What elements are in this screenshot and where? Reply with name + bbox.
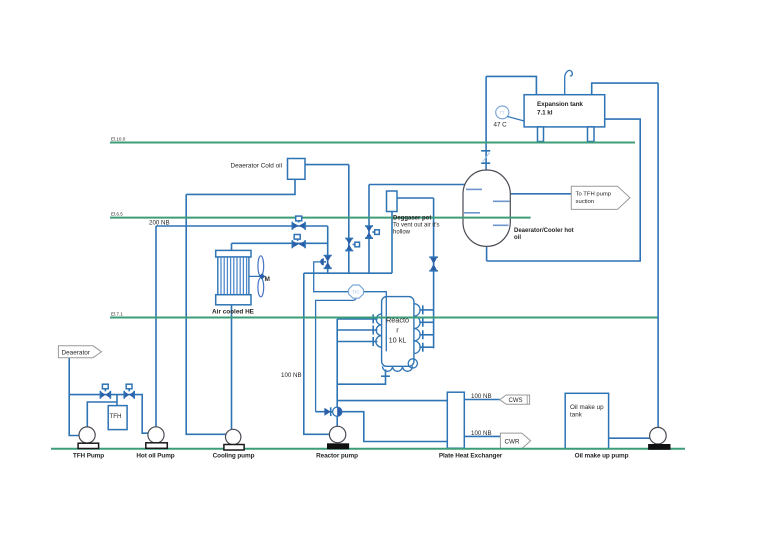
wire reactor left nozzle 1: [337, 318, 377, 320]
svg-text:Deaerator: Deaerator: [62, 349, 91, 356]
leader line TT to tank: [508, 117, 525, 122]
pedestal reactor pump: [328, 444, 349, 449]
wire valve D drop: [348, 165, 350, 274]
wire TFH box feed: [116, 395, 118, 406]
arrow deaerator: [58, 346, 101, 358]
wire expansion tank outlet to vessel bottom: [487, 119, 641, 261]
wire TFH pump discharge: [87, 402, 117, 427]
air cooled HE body: [218, 257, 249, 295]
valve B on HE feed header: [292, 235, 305, 249]
arrow CWR: [500, 433, 530, 449]
wire reactor bottom outlet: [337, 370, 385, 385]
svg-text:100 NB: 100 NB: [471, 430, 492, 437]
wire cooling pump riser: [231, 305, 233, 430]
vessel internal baffle 4: [493, 224, 509, 226]
TFH box: [108, 406, 127, 430]
wire reactor pump discharge to plate HE: [337, 400, 447, 402]
wire vessel outlet to TFH suction arrow: [510, 193, 571, 195]
wire vessel vent riser: [485, 76, 487, 170]
svg-text:7.1 kl: 7.1 kl: [537, 110, 553, 117]
fan blade top: [258, 256, 264, 276]
flange ticks right nozzles: [422, 305, 424, 351]
svg-text:Oil make up: Oil make up: [570, 404, 604, 411]
deggaser pot: [387, 191, 398, 212]
svg-text:Air cooled HE: Air cooled HE: [212, 309, 255, 316]
air cooled HE bottom header: [216, 295, 251, 305]
svg-text:El.10.0: El.10.0: [111, 137, 126, 142]
arrow to TFH pump suction: [571, 186, 630, 209]
svg-text:10 kL: 10 kL: [389, 336, 407, 345]
wire air cooled HE feed header: [232, 242, 328, 244]
reactor jacket scallops right: [414, 304, 420, 354]
svg-text:CWS: CWS: [509, 398, 523, 404]
wire pump suction line y411.7: [316, 412, 448, 442]
vessel internal baffle 2: [493, 200, 510, 202]
expansion tank: [524, 95, 605, 127]
air cooled HE tube hatching: [221, 257, 247, 295]
svg-text:TFH Pump: TFH Pump: [73, 453, 104, 460]
vessel internal baffle 3: [464, 212, 480, 214]
spectacle blind flange ticks on vent riser: [481, 151, 490, 163]
wire vessel inlet from valve header: [369, 184, 466, 186]
pump oil make up circle: [650, 427, 667, 444]
svg-text:Oil make up pump: Oil make up pump: [575, 453, 629, 460]
wire vessel bottom outlet: [486, 246, 488, 261]
wire cooling pump suction drop: [186, 194, 225, 434]
wire TIC branch from valve C actuator: [314, 262, 349, 292]
svg-text:El.7.1: El.7.1: [111, 312, 123, 317]
vessel internal baffle 1: [466, 188, 482, 190]
wire deaerator arrow drop to TFH pump: [69, 358, 79, 436]
svg-text:100 NB: 100 NB: [471, 393, 492, 400]
pedestal TFH pump: [78, 443, 99, 448]
wire deggaser pot drop: [391, 212, 393, 274]
svg-text:TT: TT: [499, 111, 505, 116]
wire reactor right nozzle 3: [419, 334, 433, 336]
valve A actuator square (over elevation line): [298, 221, 300, 223]
elevation line El.6.5: [110, 217, 531, 219]
svg-text:El.6.5: El.6.5: [111, 212, 123, 217]
valve D vertical with actuator square: [345, 238, 359, 250]
wire deggaser pot outlet: [397, 197, 434, 199]
svg-text:Reacto: Reacto: [386, 316, 409, 325]
pump cooling circle: [226, 429, 241, 444]
reactor jacket scallops bottom: [383, 366, 413, 371]
elevation line El.7.1: [110, 317, 658, 319]
instrument TIC octagon: [349, 285, 364, 298]
wire air cooled HE feed drop: [231, 243, 233, 250]
svg-text:tank: tank: [570, 412, 583, 419]
wire suction header y273: [304, 272, 392, 274]
wire TIC capillary into reactor: [363, 292, 386, 352]
deaerator/cooler hot oil vessel: [463, 170, 510, 246]
pump TFH circle: [79, 427, 95, 443]
svg-text:Plate Heat Exchanger: Plate Heat Exchanger: [439, 453, 503, 460]
svg-text:Cooling pump: Cooling pump: [213, 453, 255, 460]
svg-text:CWR: CWR: [505, 439, 520, 446]
wire reactor right nozzle 2: [419, 321, 433, 323]
wire reactor left nozzle 3: [337, 341, 377, 343]
wire valve C drop: [327, 226, 329, 273]
svg-text:Deaerator Cold oil: Deaerator Cold oil: [231, 163, 283, 170]
reactor corner scallop circle: [408, 359, 417, 368]
flange tick reactor bottom: [381, 375, 390, 377]
valve F on reactor right manifold: [429, 257, 438, 271]
wire valve E drop: [368, 185, 370, 274]
wire expansion tank top-left header: [486, 76, 536, 94]
oil make up tank: [565, 393, 608, 449]
wire plate HE to CWR: [464, 435, 500, 437]
ball valve at reactor pump riser: [333, 407, 342, 416]
svg-text:Hot oil Pump: Hot oil Pump: [136, 453, 174, 460]
svg-text:To vent out air it's: To vent out air it's: [393, 223, 440, 229]
wire plate HE to CWS: [464, 399, 499, 401]
valve C vertical with diaphragm: [320, 256, 332, 269]
fan blade bottom: [258, 278, 264, 297]
arrow CWS: [500, 395, 530, 404]
wire 200 NB header: [156, 225, 328, 227]
svg-text:oil: oil: [514, 235, 521, 241]
wire expansion tank overflow to right riser: [592, 83, 658, 95]
wire reactor right nozzle 4: [419, 346, 433, 348]
wire deaerator cold oil box right line: [305, 164, 349, 166]
svg-text:To TFH pump: To TFH pump: [576, 192, 612, 198]
svg-text:TFH: TFH: [110, 413, 122, 420]
valve A on 200 NB header: [292, 221, 305, 230]
pedestal oil make up pump: [649, 445, 670, 450]
valve V1 TFH header: [100, 384, 110, 399]
svg-text:Deggaser pot: Deggaser pot: [393, 216, 431, 222]
wire oil tank to oil pump: [609, 437, 650, 439]
instrument TT 47C circle: [496, 106, 509, 119]
air cooled HE top header: [216, 250, 251, 257]
expansion tank leg right: [588, 127, 595, 142]
flange ticks left nozzles: [372, 314, 374, 346]
pump hot oil circle: [148, 427, 164, 443]
wire reactor right nozzle 1: [419, 309, 433, 311]
wire TFH valve header: [69, 395, 148, 434]
svg-text:100 NB: 100 NB: [281, 372, 302, 379]
plate heat exchanger: [447, 392, 464, 448]
reactor body: [382, 297, 414, 367]
reactor jacket scallops left: [376, 314, 382, 347]
fan hub diamond: [259, 273, 265, 279]
wire TIC to suction drop: [316, 298, 356, 412]
svg-text:Reactor pump: Reactor pump: [316, 453, 358, 460]
expansion tank leg left: [538, 127, 544, 142]
wire hot oil pump riser: [155, 226, 157, 427]
wire deaerator cold oil box bottom line: [186, 179, 295, 194]
pump reactor circle: [329, 426, 345, 442]
wire reactor right manifold: [433, 198, 435, 348]
wire reactor pump left drop: [304, 273, 330, 434]
svg-text:200 NB: 200 NB: [149, 220, 170, 227]
ground line: [51, 448, 685, 450]
svg-text:M: M: [265, 276, 270, 283]
pedestal hot oil pump: [146, 443, 168, 449]
wire oil make up pump riser: [657, 83, 659, 428]
valve E vertical with actuator square: [365, 226, 379, 238]
deaerator cold oil box: [288, 159, 306, 180]
svg-text:suction: suction: [576, 199, 595, 205]
svg-text:Deaerator/Cooler hot: Deaerator/Cooler hot: [514, 228, 574, 234]
elevation line El.10.0: [110, 142, 635, 144]
wire fan shaft: [249, 275, 266, 277]
wire reactor left nozzle 2: [337, 329, 377, 331]
svg-text:Expansion tank: Expansion tank: [537, 101, 583, 108]
svg-text:hollow: hollow: [393, 230, 411, 236]
svg-text:47 C: 47 C: [494, 122, 508, 129]
valve V2 TFH header: [124, 384, 134, 399]
spectacle blind diagonal: [483, 153, 490, 162]
svg-text:TIC: TIC: [352, 290, 360, 295]
pedestal cooling pump: [224, 445, 244, 451]
wire reactor pump riser / left manifold: [336, 319, 338, 426]
vent goose neck on expansion tank: [565, 70, 573, 94]
check valve on pump suction: [324, 407, 330, 416]
